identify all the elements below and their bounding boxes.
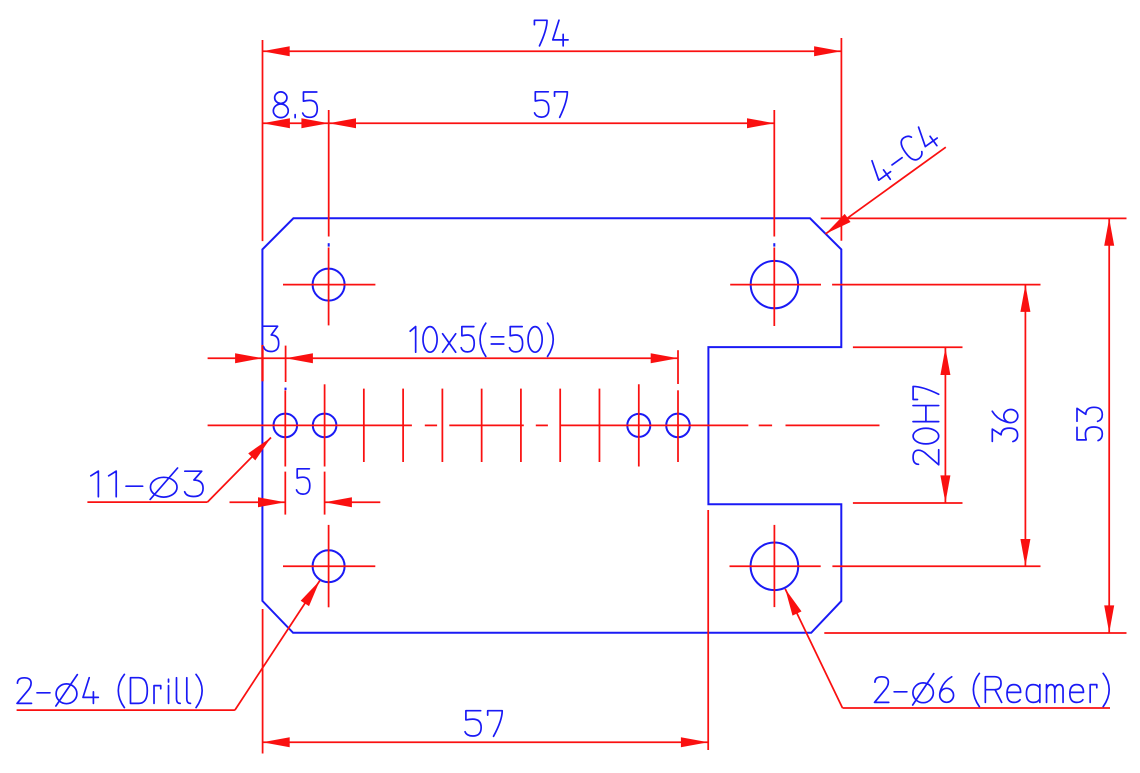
blue center dash x=328.7 <box>328 243 330 246</box>
dimension 36 extension line top <box>832 284 1040 286</box>
hole bottom-left (drill 4) <box>313 550 345 582</box>
text 57top <box>535 92 568 118</box>
text 57bot <box>465 711 502 737</box>
center mark top-right hole <box>730 284 821 286</box>
row hole 11 (phi3) <box>666 414 690 438</box>
dimension 3/10x5 line <box>208 357 678 359</box>
text 11phi3 <box>91 468 203 499</box>
dimension 57 bottom extension line right <box>707 510 709 750</box>
text 8.5 <box>273 92 317 118</box>
text 10x5 <box>410 323 553 356</box>
dimension 74 line <box>262 50 841 52</box>
blue center dash x=285.6 <box>285 388 287 391</box>
vertical ticks of hole row <box>284 390 286 466</box>
leader 2-phi4 arrow line <box>235 581 320 711</box>
dimension 20H7 extension line top <box>853 346 963 348</box>
hole top-right (reamer 6) <box>751 261 798 308</box>
dimension 36 line <box>1024 285 1026 567</box>
dimension 53 extension line bottom <box>824 632 1126 634</box>
dimension 57 top line <box>329 122 775 124</box>
center mark top-left hole <box>283 284 375 286</box>
row hole 1 (phi3) <box>274 414 298 438</box>
dimension 53 line <box>1108 218 1110 632</box>
dimension 36 extension line bottom <box>832 565 1040 567</box>
text 20H7 <box>913 386 939 464</box>
text 5 <box>297 469 310 494</box>
leader 2-phi4 underline <box>17 709 235 711</box>
text 3 <box>264 326 279 351</box>
row hole 10 (phi3) <box>627 414 650 437</box>
dimension 74 extension line right <box>840 38 842 241</box>
text 53 <box>1077 407 1102 440</box>
leader 2-phi6 underline <box>843 707 1111 709</box>
text 74 <box>534 20 568 46</box>
dimension 57 bottom line <box>262 741 708 743</box>
center mark bottom-right hole <box>730 565 821 567</box>
hole top-left (drill 4) <box>313 269 345 301</box>
dimension 57 bottom extension line left <box>262 609 264 754</box>
dimension 3 extension line (on plate edge) <box>261 345 263 381</box>
text 4C4 <box>867 122 940 185</box>
blue center dash x=774.3 <box>773 243 775 246</box>
leader 11-phi3 arrow line <box>207 438 271 503</box>
dimension 5 line with outside arrows <box>230 501 286 503</box>
text 2phi4 <box>17 674 202 707</box>
dimension 8.5/57 extension line x=328.7 <box>328 110 330 237</box>
leader 11-phi3 underline <box>87 501 207 503</box>
hole1 column extension up to 10x5 dim <box>285 346 287 382</box>
leader 4-C4 arrow line <box>826 147 946 234</box>
dimension 74 extension line left <box>262 40 264 241</box>
dimension 20H7 extension line bottom <box>853 502 963 504</box>
plate outline <box>262 218 841 633</box>
text 2phi6 <box>875 673 1110 706</box>
hole bottom-right (reamer 6) <box>751 543 799 591</box>
dimension 53 extension line top <box>821 217 1127 219</box>
text 36 <box>992 409 1018 441</box>
dimension 20H7 line <box>944 348 946 503</box>
center mark bottom-left hole <box>283 565 375 567</box>
leader 2-phi6 arrow line <box>785 589 842 708</box>
dimension 8.5 line <box>263 122 329 124</box>
horizontal centerline of hole row <box>208 424 412 426</box>
row hole 2 (phi3) <box>313 414 337 438</box>
dimension 57 extension line x=774.3 <box>773 110 775 237</box>
